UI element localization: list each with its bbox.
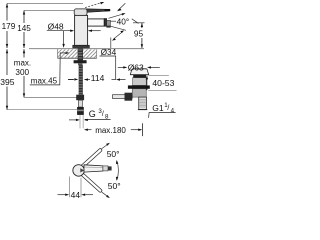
lower 50deg arrow [102, 192, 108, 197]
svg-text:/: / [102, 111, 104, 118]
svg-text:145: 145 [17, 24, 31, 33]
drop leader to counter [63, 31, 65, 45]
counter hatch left [58, 49, 78, 57]
mounting nut [74, 60, 87, 63]
extension line top 179 [7, 3, 83, 5]
hose connector [76, 95, 84, 101]
spout [88, 19, 105, 26]
svg-text:Ø48: Ø48 [48, 21, 64, 31]
svg-text:95: 95 [134, 29, 144, 39]
dimension max.300 [23, 49, 25, 97]
dimension max.180 [84, 129, 88, 131]
aerator [107, 20, 111, 27]
lever open thin line 40deg [85, 3, 101, 8]
waste deck flange [128, 85, 150, 88]
upper 50deg arrow [102, 144, 108, 149]
threaded tube in hole [78, 49, 83, 61]
waste tail pipe [139, 97, 147, 109]
svg-text:300: 300 [15, 68, 29, 77]
swing arc [117, 161, 119, 180]
lever handle [84, 9, 110, 13]
counter top line [29, 48, 144, 50]
lever pivot knob [74, 9, 87, 16]
faucet body [75, 15, 88, 45]
svg-text:179: 179 [2, 22, 16, 31]
svg-text:G1: G1 [152, 103, 164, 113]
top view body circle [73, 165, 85, 177]
dimension 44 [69, 177, 81, 198]
extension line top 145 [24, 10, 76, 12]
counter hatch right [83, 49, 97, 57]
dimension 395 [6, 49, 8, 109]
svg-text:Ø63: Ø63 [128, 62, 144, 72]
40deg angle double arrow [114, 32, 123, 39]
diameter 48 right arrow [89, 30, 101, 32]
spout tip cap [104, 19, 107, 27]
svg-text:max.: max. [14, 59, 31, 68]
svg-text:G: G [89, 109, 96, 119]
extension line hose end 1 [24, 96, 79, 98]
arc arrow 40deg [118, 3, 125, 10]
counter bottom line [58, 57, 97, 59]
40deg annotation [110, 20, 116, 22]
base plinth [73, 45, 90, 48]
top view lever up 50deg [81, 150, 100, 168]
svg-text:max.45: max.45 [31, 76, 58, 85]
dimension 114 [68, 79, 74, 81]
top view lever closed [84, 165, 103, 172]
aerator axis reference line [110, 38, 112, 49]
dimension 179 [6, 4, 8, 49]
waste neck [133, 78, 147, 86]
waste rod coupler [125, 93, 133, 101]
svg-text:395: 395 [0, 77, 14, 87]
dimension 40-53 [146, 75, 148, 90]
dimension 95 [133, 22, 145, 24]
svg-text:Ø34: Ø34 [101, 47, 117, 57]
extension line hose end 2 [7, 109, 78, 111]
hose end extension lines [80, 115, 83, 128]
waste lower body [132, 89, 146, 97]
svg-text:44: 44 [71, 190, 81, 200]
svg-text:50°: 50° [107, 149, 120, 159]
top view lever down 50deg [81, 173, 100, 191]
pop-up waste knob dome [130, 69, 148, 75]
svg-text:max.180: max.180 [95, 126, 126, 135]
diameter 63 dimension [118, 66, 124, 68]
svg-text:50°: 50° [108, 181, 121, 191]
svg-text:40-53: 40-53 [152, 78, 174, 88]
waste dark ring [133, 75, 146, 78]
svg-text:/: / [167, 105, 169, 112]
dimension 145 [23, 11, 25, 49]
svg-text:4: 4 [171, 107, 175, 114]
threaded stud [79, 65, 83, 95]
hose [78, 100, 82, 107]
waste rod [113, 95, 133, 99]
svg-text:114: 114 [91, 73, 105, 83]
svg-text:40°: 40° [117, 16, 130, 26]
hose end fitting [77, 107, 84, 115]
